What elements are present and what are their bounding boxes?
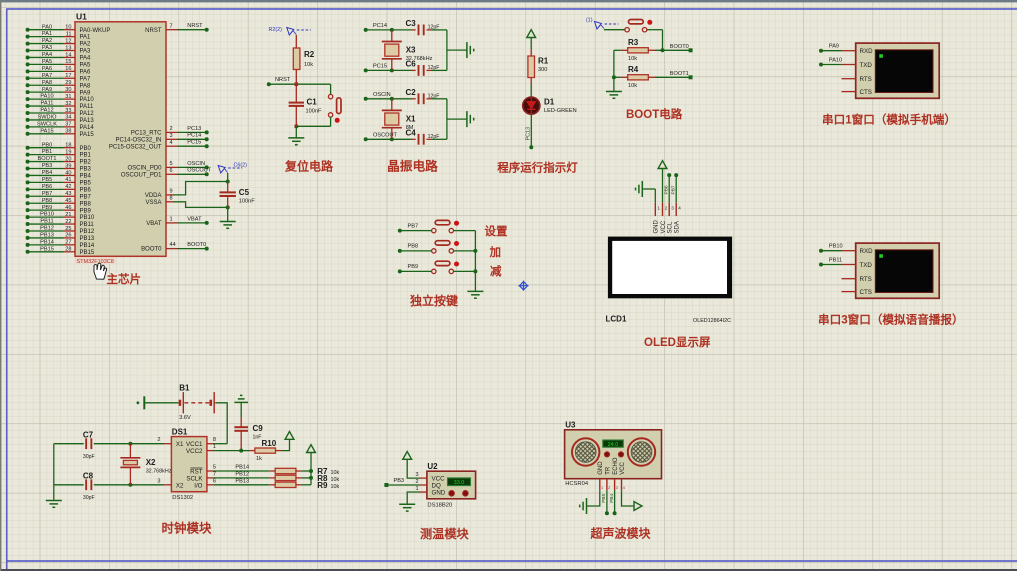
svg-text:PB3: PB3: [80, 167, 92, 173]
svg-text:PA12: PA12: [40, 108, 53, 114]
svg-text:X1: X1: [406, 114, 416, 123]
svg-text:X2: X2: [146, 458, 156, 467]
svg-text:46: 46: [65, 205, 71, 211]
svg-text:OSCOUT_PD1: OSCOUT_PD1: [121, 172, 162, 178]
svg-text:PB12: PB12: [235, 471, 249, 477]
svg-text:超声波模块: 超声波模块: [590, 526, 652, 541]
svg-text:PB10: PB10: [829, 244, 843, 250]
svg-text:PB9: PB9: [42, 205, 53, 211]
svg-text:PA15: PA15: [40, 128, 53, 134]
svg-text:LED-GREEN: LED-GREEN: [544, 108, 577, 114]
svg-text:RXD: RXD: [860, 248, 874, 255]
svg-text:PB11: PB11: [829, 258, 842, 264]
svg-text:29: 29: [65, 80, 71, 86]
svg-text:C8: C8: [83, 471, 94, 480]
svg-text:PA6: PA6: [42, 66, 52, 72]
svg-text:22: 22: [65, 219, 71, 225]
svg-text:独立按键: 独立按键: [409, 293, 458, 308]
svg-text:14: 14: [65, 52, 71, 58]
svg-text:PC14-OSC32_IN: PC14-OSC32_IN: [115, 137, 161, 143]
svg-text:PA13: PA13: [80, 118, 95, 124]
svg-text:33: 33: [65, 108, 71, 114]
svg-text:PC13: PC13: [187, 126, 201, 132]
svg-text:PA8: PA8: [80, 83, 92, 89]
svg-text:30pF: 30pF: [83, 454, 95, 460]
svg-text:17: 17: [65, 73, 71, 79]
svg-text:U3: U3: [565, 420, 576, 429]
svg-text:BOOT1: BOOT1: [670, 71, 689, 77]
svg-text:11: 11: [66, 31, 72, 37]
svg-text:PC13: PC13: [525, 127, 531, 141]
svg-text:VCC2: VCC2: [186, 448, 203, 455]
svg-text:12pF: 12pF: [428, 94, 440, 100]
svg-text:PB14: PB14: [235, 465, 249, 471]
svg-text:PB10: PB10: [80, 215, 95, 221]
svg-text:4: 4: [170, 140, 173, 146]
svg-text:VDDA: VDDA: [145, 193, 162, 199]
svg-text:SCL: SCL: [668, 221, 674, 233]
svg-text:X1: X1: [176, 441, 184, 448]
svg-text:VCC: VCC: [661, 220, 667, 233]
svg-text:12pF: 12pF: [428, 25, 440, 31]
svg-text:BOOT0: BOOT0: [141, 247, 162, 253]
svg-text:PA7: PA7: [42, 73, 52, 79]
svg-text:DS1: DS1: [172, 427, 188, 436]
svg-text:8: 8: [170, 195, 173, 201]
svg-text:10k: 10k: [304, 62, 313, 68]
svg-text:VBAT: VBAT: [187, 216, 202, 222]
svg-text:C2: C2: [406, 88, 417, 97]
svg-text:(1): (1): [586, 18, 593, 24]
svg-text:U1: U1: [76, 12, 87, 22]
svg-text:PB12: PB12: [80, 229, 95, 235]
svg-text:3.6V: 3.6V: [179, 415, 191, 421]
svg-text:PB5: PB5: [601, 493, 607, 502]
svg-text:300: 300: [538, 67, 547, 73]
svg-text:PB8: PB8: [408, 244, 419, 250]
svg-text:OLED显示屏: OLED显示屏: [644, 336, 711, 349]
svg-text:CTS: CTS: [860, 289, 872, 296]
svg-text:C6(2): C6(2): [234, 163, 248, 169]
svg-text:PA0-WKUP: PA0-WKUP: [80, 28, 111, 34]
svg-text:RTS: RTS: [860, 76, 872, 83]
svg-text:OSCIN_PD0: OSCIN_PD0: [127, 166, 162, 172]
svg-text:C1: C1: [307, 98, 318, 107]
svg-text:PA1: PA1: [80, 35, 92, 41]
svg-text:PB14: PB14: [80, 243, 95, 249]
svg-text:B1: B1: [179, 384, 190, 393]
svg-text:C6: C6: [406, 60, 417, 69]
svg-text:24.0: 24.0: [608, 442, 619, 448]
svg-text:10k: 10k: [331, 484, 340, 490]
svg-text:程序运行指示灯: 程序运行指示灯: [497, 160, 578, 174]
svg-text:100nF: 100nF: [239, 199, 255, 205]
svg-text:10k: 10k: [628, 56, 637, 62]
svg-text:PB2: PB2: [80, 160, 92, 166]
svg-text:4: 4: [623, 486, 625, 490]
svg-text:R1: R1: [538, 57, 549, 66]
svg-text:28: 28: [65, 247, 71, 253]
svg-text:PA10: PA10: [80, 97, 95, 103]
svg-text:串口1窗口（模拟手机端）: 串口1窗口（模拟手机端）: [822, 113, 956, 127]
svg-text:100nF: 100nF: [306, 109, 322, 115]
svg-text:PC15: PC15: [187, 140, 201, 146]
svg-text:33.0: 33.0: [454, 480, 465, 486]
svg-text:2: 2: [170, 126, 173, 132]
svg-text:C7: C7: [83, 430, 94, 439]
svg-text:43: 43: [65, 191, 71, 197]
svg-text:PB6: PB6: [42, 184, 53, 190]
svg-text:C3: C3: [406, 19, 417, 28]
svg-text:45: 45: [65, 198, 71, 204]
svg-text:PA2: PA2: [42, 38, 52, 44]
svg-text:OLED12864I2C: OLED12864I2C: [693, 318, 731, 324]
svg-text:GND: GND: [432, 489, 446, 496]
svg-text:PB15: PB15: [40, 246, 54, 252]
svg-text:2: 2: [415, 479, 418, 485]
svg-text:PA4: PA4: [80, 56, 92, 62]
svg-text:PC15-OSC32_OUT: PC15-OSC32_OUT: [109, 144, 162, 150]
svg-text:R4: R4: [628, 65, 639, 74]
svg-text:10k: 10k: [331, 470, 340, 476]
svg-text:18: 18: [65, 143, 71, 149]
svg-text:SWDIO: SWDIO: [38, 115, 58, 121]
svg-text:主芯片: 主芯片: [107, 272, 142, 286]
svg-text:PB10: PB10: [40, 212, 54, 218]
svg-text:PB12: PB12: [40, 226, 54, 232]
svg-text:PC14: PC14: [187, 133, 201, 139]
svg-text:VCC: VCC: [620, 461, 626, 474]
svg-text:SDA: SDA: [675, 221, 681, 233]
svg-text:1: 1: [213, 444, 216, 450]
svg-text:C4: C4: [406, 128, 417, 137]
svg-text:C5: C5: [239, 188, 250, 197]
svg-text:HCSR04: HCSR04: [565, 481, 589, 487]
svg-text:BOOT0: BOOT0: [670, 44, 689, 50]
svg-text:PB5: PB5: [42, 177, 53, 183]
svg-text:BOOT1: BOOT1: [38, 156, 57, 162]
svg-text:PB7: PB7: [80, 194, 92, 200]
svg-text:PA5: PA5: [42, 59, 52, 65]
svg-text:X3: X3: [406, 46, 416, 55]
svg-text:PA1: PA1: [42, 31, 52, 37]
svg-text:12pF: 12pF: [428, 134, 440, 140]
svg-text:41: 41: [65, 177, 71, 183]
svg-text:PA5: PA5: [80, 63, 92, 69]
svg-text:16: 16: [65, 66, 71, 72]
svg-text:PB6: PB6: [80, 187, 92, 193]
svg-text:R2: R2: [304, 50, 315, 59]
svg-text:PB3: PB3: [42, 163, 53, 169]
svg-text:8: 8: [213, 437, 216, 443]
svg-text:15: 15: [65, 59, 71, 65]
svg-text:25: 25: [65, 226, 71, 232]
svg-text:20: 20: [65, 156, 71, 162]
svg-text:PA14: PA14: [80, 125, 95, 131]
svg-text:PA9: PA9: [829, 44, 839, 50]
svg-text:OSCIN: OSCIN: [373, 92, 391, 98]
svg-text:GND: GND: [654, 220, 660, 234]
svg-text:NRST: NRST: [145, 28, 162, 34]
svg-text:TXD: TXD: [860, 62, 873, 69]
svg-text:PB7: PB7: [408, 223, 419, 229]
svg-text:31: 31: [65, 94, 71, 100]
svg-text:OSCIN: OSCIN: [187, 161, 205, 167]
svg-text:SCLK: SCLK: [186, 475, 203, 482]
svg-text:GND: GND: [598, 461, 604, 475]
svg-text:复位电路: 复位电路: [284, 159, 334, 174]
svg-text:3: 3: [170, 133, 173, 139]
svg-text:OSCOUT: OSCOUT: [373, 132, 398, 138]
svg-text:PA10: PA10: [40, 94, 53, 100]
svg-text:PA11: PA11: [41, 101, 54, 107]
svg-text:PB11: PB11: [80, 222, 95, 228]
svg-text:32.768kHz: 32.768kHz: [146, 469, 172, 475]
svg-text:C9: C9: [253, 424, 264, 433]
svg-text:7: 7: [170, 23, 173, 29]
svg-text:PC14: PC14: [373, 23, 387, 29]
svg-text:3: 3: [415, 472, 418, 478]
svg-text:D1: D1: [544, 98, 555, 107]
svg-text:2: 2: [157, 437, 160, 443]
svg-text:PB15: PB15: [80, 250, 95, 256]
svg-text:PB4: PB4: [80, 174, 92, 180]
svg-text:X2: X2: [176, 482, 184, 489]
svg-text:TXD: TXD: [860, 262, 873, 269]
svg-text:3: 3: [616, 486, 618, 490]
svg-text:RXD: RXD: [860, 48, 874, 55]
svg-text:34: 34: [65, 115, 71, 121]
svg-text:PA0: PA0: [42, 24, 52, 30]
svg-text:NRST: NRST: [187, 23, 203, 29]
svg-text:PB1: PB1: [42, 149, 53, 155]
svg-text:PA15: PA15: [80, 132, 95, 138]
svg-text:6: 6: [170, 168, 173, 174]
svg-text:1: 1: [170, 217, 173, 223]
svg-text:VBAT: VBAT: [146, 221, 162, 227]
svg-text:PB0: PB0: [80, 146, 92, 152]
svg-text:PB9: PB9: [80, 208, 92, 214]
svg-text:PB9: PB9: [408, 264, 419, 270]
svg-text:26: 26: [65, 233, 71, 239]
svg-text:R2(2): R2(2): [269, 27, 283, 33]
svg-text:PC15: PC15: [373, 64, 387, 70]
svg-text:PA7: PA7: [80, 76, 92, 82]
svg-text:SWCLK: SWCLK: [37, 121, 57, 127]
svg-text:PA11: PA11: [80, 104, 94, 110]
svg-text:30pF: 30pF: [83, 495, 95, 501]
svg-text:PB4: PB4: [609, 493, 615, 502]
svg-text:PB7: PB7: [671, 185, 677, 194]
svg-text:测温模块: 测温模块: [420, 526, 470, 541]
svg-text:PB11: PB11: [40, 219, 53, 225]
svg-text:CTS: CTS: [860, 89, 872, 96]
svg-text:40: 40: [65, 170, 71, 176]
svg-text:5: 5: [213, 465, 216, 471]
svg-text:32: 32: [65, 101, 71, 107]
svg-text:21: 21: [65, 212, 71, 218]
svg-text:减: 减: [490, 264, 502, 278]
svg-text:2: 2: [608, 486, 610, 490]
svg-text:PB4: PB4: [42, 170, 53, 176]
svg-text:30: 30: [65, 87, 71, 93]
svg-text:PB13: PB13: [40, 233, 54, 239]
svg-text:44: 44: [170, 242, 176, 248]
svg-text:12: 12: [65, 38, 71, 44]
svg-text:TR: TR: [605, 466, 611, 475]
svg-text:PB3: PB3: [394, 478, 405, 484]
svg-text:PB13: PB13: [235, 478, 249, 484]
svg-text:R9: R9: [317, 481, 328, 490]
svg-text:DS18B20: DS18B20: [427, 502, 452, 508]
svg-text:PA9: PA9: [80, 90, 92, 96]
svg-text:PB13: PB13: [80, 236, 95, 242]
svg-text:LCD1: LCD1: [606, 314, 627, 323]
svg-text:ECHO: ECHO: [613, 457, 619, 475]
svg-text:12pF: 12pF: [428, 65, 440, 71]
svg-text:PA3: PA3: [80, 49, 92, 55]
svg-text:RTS: RTS: [860, 276, 872, 283]
svg-text:串口3窗口（模拟语音播报）: 串口3窗口（模拟语音播报）: [818, 313, 964, 327]
svg-text:5: 5: [170, 161, 173, 167]
svg-text:6: 6: [213, 478, 216, 484]
svg-text:PA9: PA9: [42, 87, 52, 93]
svg-text:PB6: PB6: [664, 185, 670, 194]
svg-text:PA8: PA8: [42, 80, 52, 86]
svg-text:BOOT电路: BOOT电路: [626, 107, 683, 121]
svg-text:PA3: PA3: [42, 45, 52, 51]
svg-text:I/O: I/O: [194, 482, 202, 489]
svg-text:PA12: PA12: [80, 111, 95, 117]
svg-text:OSCOUT: OSCOUT: [187, 168, 212, 174]
svg-text:PB8: PB8: [42, 198, 53, 204]
svg-text:1: 1: [601, 486, 603, 490]
svg-text:PA2: PA2: [80, 42, 92, 48]
svg-text:38: 38: [65, 129, 71, 135]
svg-text:1: 1: [415, 486, 418, 492]
svg-text:PB7: PB7: [42, 191, 53, 197]
svg-text:R3: R3: [628, 38, 639, 47]
svg-text:时钟模块: 时钟模块: [162, 520, 213, 535]
svg-text:PA10: PA10: [829, 58, 842, 64]
svg-text:10k: 10k: [331, 477, 340, 483]
svg-text:13: 13: [65, 45, 71, 51]
svg-text:PB14: PB14: [40, 239, 54, 245]
svg-text:37: 37: [65, 122, 71, 128]
svg-text:10k: 10k: [628, 83, 637, 89]
svg-text:1nF: 1nF: [253, 435, 262, 441]
svg-text:DS1302: DS1302: [172, 495, 193, 501]
svg-text:PA6: PA6: [80, 69, 92, 75]
svg-text:晶振电路: 晶振电路: [387, 159, 438, 174]
svg-text:3: 3: [157, 478, 160, 484]
svg-text:9: 9: [170, 189, 173, 195]
svg-text:VSSA: VSSA: [145, 200, 161, 206]
svg-text:PB8: PB8: [80, 201, 92, 207]
svg-text:10: 10: [65, 25, 71, 31]
svg-text:STM32F103C8: STM32F103C8: [77, 259, 114, 265]
svg-text:PB1: PB1: [80, 153, 92, 159]
svg-text:1k: 1k: [256, 456, 262, 462]
svg-text:NRST: NRST: [275, 77, 291, 83]
svg-text:U2: U2: [427, 462, 438, 471]
svg-text:PB5: PB5: [80, 181, 92, 187]
svg-text:PB0: PB0: [42, 142, 53, 148]
svg-text:7: 7: [213, 471, 216, 477]
svg-text:27: 27: [65, 240, 71, 246]
svg-text:39: 39: [65, 163, 71, 169]
svg-text:PA4: PA4: [42, 52, 52, 58]
svg-text:设置: 设置: [485, 224, 508, 238]
svg-text:加: 加: [489, 245, 502, 259]
svg-text:PC13_RTC: PC13_RTC: [131, 131, 162, 137]
svg-text:BOOT0: BOOT0: [187, 242, 206, 248]
svg-text:19: 19: [65, 149, 71, 155]
svg-text:42: 42: [65, 184, 71, 190]
svg-text:R10: R10: [262, 439, 277, 448]
